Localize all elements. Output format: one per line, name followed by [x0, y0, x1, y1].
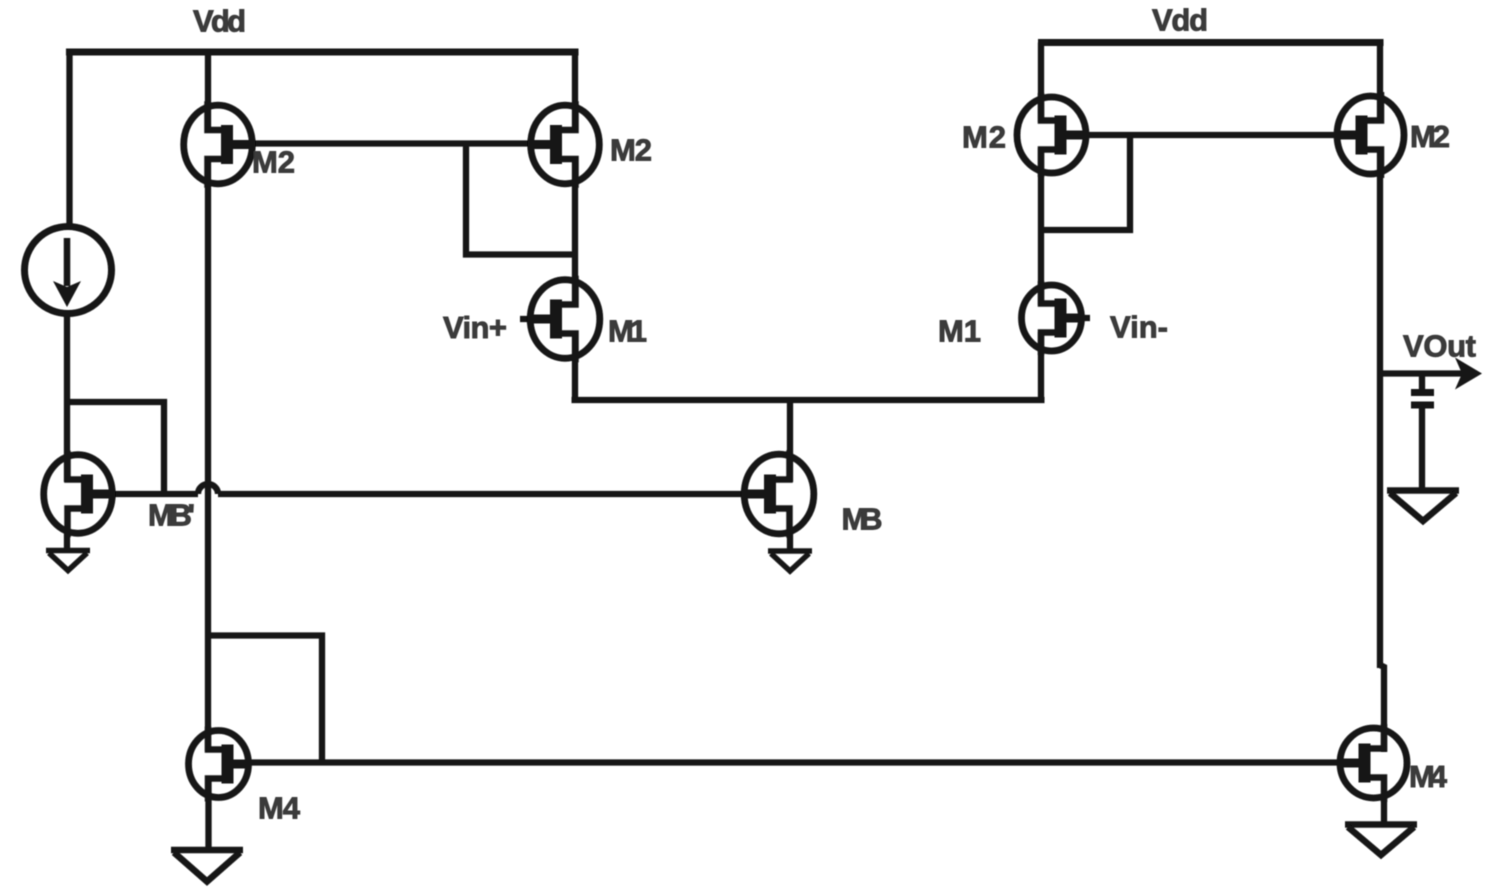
svg-text:Vdd: Vdd — [1152, 3, 1208, 38]
svg-text:M2: M2 — [252, 145, 295, 180]
svg-text:MB': MB' — [148, 498, 195, 533]
svg-text:M2: M2 — [610, 133, 652, 168]
svg-text:M2: M2 — [962, 120, 1006, 155]
svg-text:M1: M1 — [608, 314, 647, 349]
svg-text:VOut: VOut — [1403, 329, 1476, 364]
svg-text:M4: M4 — [258, 791, 301, 826]
svg-text:M1: M1 — [938, 314, 981, 349]
svg-text:Vin-: Vin- — [1110, 310, 1168, 345]
svg-text:M2: M2 — [1410, 119, 1450, 154]
svg-text:MB: MB — [842, 502, 883, 537]
svg-text:Vdd: Vdd — [193, 4, 246, 39]
svg-text:Vin+: Vin+ — [443, 310, 507, 345]
svg-text:M4: M4 — [1409, 759, 1448, 794]
